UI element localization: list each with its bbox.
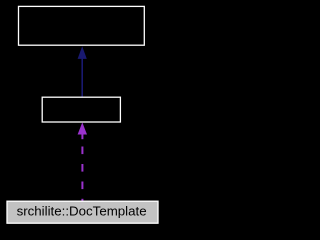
node: middle template-instance box (label not visible) xyxy=(42,97,120,122)
node: srchilite::DocTemplate (current class, grey filled) xyxy=(7,201,158,223)
node: top base-class box (label not visible) xyxy=(19,6,145,45)
svg-text:srchilite::DocTemplate: srchilite::DocTemplate xyxy=(17,203,147,218)
inheritance arrow (solid, midnightblue) from middle box to top box xyxy=(78,46,87,97)
usage arrow (dashed, darkorchid) from bottom box to middle box xyxy=(78,122,87,201)
